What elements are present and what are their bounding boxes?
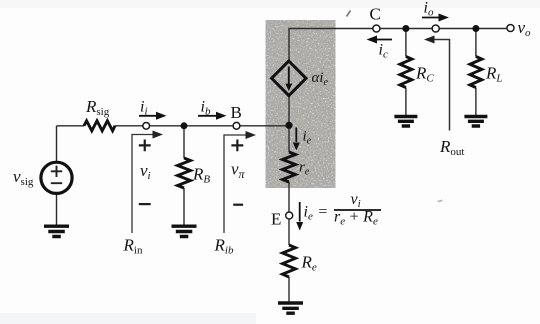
svg-text:ii: ii bbox=[140, 99, 148, 118]
svg-text:E: E bbox=[271, 210, 281, 229]
svg-text:C: C bbox=[370, 5, 381, 24]
svg-text:Re: Re bbox=[301, 253, 317, 274]
svg-text:vi: vi bbox=[351, 191, 361, 210]
svg-text:ib: ib bbox=[201, 99, 211, 118]
svg-text:vπ: vπ bbox=[231, 160, 246, 182]
svg-text:vsig: vsig bbox=[13, 167, 34, 188]
svg-text:Rsig: Rsig bbox=[85, 97, 110, 118]
svg-text:B: B bbox=[231, 103, 242, 122]
svg-text:ic: ic bbox=[379, 42, 388, 61]
svg-text:vo: vo bbox=[518, 18, 532, 39]
svg-text:Rin: Rin bbox=[123, 236, 143, 257]
svg-text:ie=: ie= bbox=[304, 204, 328, 223]
svg-text:RL: RL bbox=[485, 64, 503, 85]
svg-text:vi: vi bbox=[140, 161, 151, 182]
svg-text:RB: RB bbox=[192, 165, 210, 186]
svg-text:Rib: Rib bbox=[214, 236, 234, 257]
svg-text:Rout: Rout bbox=[439, 137, 464, 158]
svg-text:re+Re: re+Re bbox=[334, 209, 378, 228]
svg-text:RC: RC bbox=[415, 64, 434, 85]
